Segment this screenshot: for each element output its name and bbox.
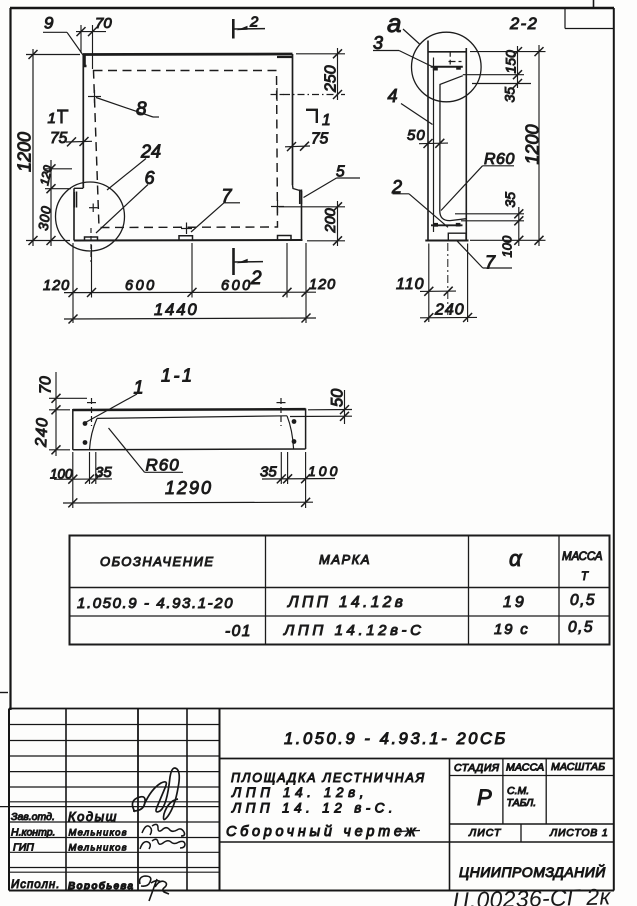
svg-text:1290: 1290: [165, 478, 213, 498]
svg-text:ТАБЛ.: ТАБЛ.: [507, 797, 537, 809]
frame right border: [613, 8, 615, 891]
section mark 2 top: [232, 19, 235, 39]
stud axis right: [277, 398, 286, 426]
extension line stud level: [463, 74, 524, 76]
plan outline left step: [74, 187, 83, 189]
svg-text:МАССА: МАССА: [506, 762, 544, 774]
beam outer left edge: [72, 409, 74, 450]
section profile top edge: [428, 51, 467, 53]
svg-text:1440: 1440: [154, 301, 199, 319]
dim 1200 left: line: [26, 49, 80, 246]
table header row line: [70, 587, 610, 589]
svg-text:1.050.9 - 4.93.1- 20СБ: 1.050.9 - 4.93.1- 20СБ: [284, 730, 508, 748]
dim row 1440: [64, 318, 316, 319]
svg-text:ЛПП 14. 12в,: ЛПП 14. 12в,: [231, 785, 368, 800]
bottom embed plate line: [431, 224, 463, 226]
svg-text:240: 240: [33, 417, 52, 449]
right rib inner face R60: [287, 416, 294, 449]
beam soffit line: [97, 416, 287, 419]
grid vertical x187: [186, 709, 188, 891]
svg-text:200: 200: [323, 208, 339, 233]
svg-text:24: 24: [140, 142, 161, 162]
svg-text:Мельников: Мельников: [69, 843, 128, 854]
dim 110: [420, 290, 456, 292]
svg-text:1200: 1200: [523, 124, 543, 164]
svg-text:120: 120: [309, 277, 336, 293]
stud axis left: [87, 398, 96, 426]
stud cross in detail circle: [89, 204, 98, 213]
extension line fillet level: [472, 83, 531, 85]
svg-text:С.М.: С.М.: [507, 785, 529, 797]
svg-text:50: 50: [407, 127, 426, 144]
svg-text:Р: Р: [477, 785, 492, 810]
svg-text:Сборочный чертеж: Сборочный чертеж: [226, 824, 419, 840]
dim 100/35 left: [54, 478, 112, 480]
svg-text:1.050.9 - 4.93.1-20: 1.050.9 - 4.93.1-20: [77, 595, 234, 612]
svg-text:α: α: [509, 546, 523, 571]
top edge stub: [593, 0, 595, 8]
svg-text:ЦНИИПРОМЗДАНИЙ: ЦНИИПРОМЗДАНИЙ: [459, 863, 606, 880]
dim 1290: [63, 501, 313, 504]
beam bottom edge: [73, 448, 306, 451]
svg-text:МАРКА: МАРКА: [319, 552, 371, 567]
embed plate bottom-right: [278, 236, 292, 241]
svg-text:120: 120: [43, 278, 70, 294]
svg-text:70: 70: [95, 15, 112, 32]
stud cross top-left: [88, 90, 101, 103]
section mark 1 left: [57, 111, 69, 124]
svg-text:Т: Т: [581, 571, 589, 583]
table column line 3: [558, 536, 560, 645]
corner notch detail callout9: [85, 55, 87, 66]
rebar dots left rib: [83, 421, 88, 445]
stadia col sep 1: [502, 759, 504, 825]
list row bottom / name cell bottom: [220, 841, 615, 843]
svg-text:100: 100: [308, 463, 340, 479]
dim 250 right of plan: [283, 48, 345, 100]
svg-text:1-1: 1-1: [161, 366, 195, 386]
svg-text:8: 8: [136, 99, 147, 120]
stud cross right-lower: [271, 200, 284, 213]
bottom extension lines: [429, 244, 468, 323]
section mark 2 bottom: [232, 248, 235, 275]
stadia row bottom: [450, 823, 615, 825]
svg-text:7: 7: [485, 253, 496, 273]
section profile inner left line: [433, 58, 435, 233]
dim 35/100 right: [262, 478, 335, 481]
detail circle: [56, 182, 125, 251]
svg-text:Зав.отд.: Зав.отд.: [11, 811, 55, 823]
dim 120/300 left: line: [45, 160, 72, 246]
svg-text:19 с: 19 с: [494, 621, 530, 638]
svg-text:2: 2: [250, 268, 262, 289]
svg-text:Исполн.: Исполн.: [11, 879, 60, 891]
frame top border: [10, 7, 614, 9]
svg-text:Мельников: Мельников: [69, 828, 128, 839]
svg-text:240: 240: [434, 302, 465, 319]
svg-text:0,5: 0,5: [568, 619, 594, 636]
svg-text:100: 100: [50, 467, 73, 482]
svg-text:600: 600: [125, 278, 157, 294]
svg-text:ЛИСТОВ 1: ЛИСТОВ 1: [549, 827, 608, 839]
svg-text:70: 70: [38, 376, 55, 394]
inner dashed contour: [94, 71, 278, 228]
svg-text:19: 19: [503, 594, 527, 611]
plan outline left edge upper: [82, 54, 84, 188]
svg-text:Кодыш: Кодыш: [68, 809, 118, 824]
right extension line top: [470, 51, 546, 53]
signature Кодыш flourish: [132, 768, 179, 820]
svg-text:R60: R60: [146, 456, 180, 475]
plan outline left edge lower: [73, 188, 75, 240]
section profile bottom edge: [425, 240, 468, 242]
grid rows left part: [0, 725, 220, 873]
top edge inner thickening near right corner: [277, 56, 292, 58]
embed plate bottom-left: [85, 237, 98, 241]
svg-text:75: 75: [50, 130, 68, 147]
svg-text:Воробьева: Воробьева: [68, 880, 134, 892]
plan outline right edge lower: [301, 191, 303, 240]
table row line: [70, 615, 610, 617]
left dims 70/240: [49, 372, 87, 456]
detail circle a: [412, 32, 482, 102]
side embed plate right (callout 5): [300, 190, 302, 205]
side embed plate left (in circle): [74, 192, 76, 208]
top-right corner box line: [565, 28, 614, 30]
svg-text:a: a: [387, 8, 401, 38]
svg-text:МАССА: МАССА: [562, 551, 603, 563]
top embed anchor dots: [433, 66, 461, 70]
svg-text:4: 4: [388, 86, 398, 106]
signature Мельников 2: [140, 839, 185, 849]
doc number cell line: [220, 758, 615, 760]
svg-text:Н.контр.: Н.контр.: [11, 827, 55, 839]
stadia block left edge: [449, 759, 451, 891]
plan outline right edge upper: [292, 54, 294, 185]
title block bottom line: [9, 890, 614, 892]
bottom edge embed plate: [448, 233, 466, 240]
right dim 50: [290, 390, 352, 424]
rebar dots right rib: [292, 419, 297, 444]
svg-text:ОБОЗНАЧЕНИЕ: ОБОЗНАЧЕНИЕ: [100, 554, 215, 569]
grid vertical x219.5 (big box left): [219, 709, 221, 891]
callout a leader: [403, 29, 420, 44]
svg-text:35: 35: [502, 192, 518, 208]
bottom extension lines: [73, 452, 306, 508]
svg-text:ЛПП 14.12в-С: ЛПП 14.12в-С: [283, 622, 425, 639]
svg-text:100: 100: [500, 235, 515, 257]
svg-text:110: 110: [396, 276, 425, 293]
vertical axis dash-dot below section: [447, 243, 449, 318]
dim row 120-600-600-120: [64, 291, 316, 293]
signature Воробьева: [140, 876, 169, 901]
svg-text:1: 1: [48, 110, 56, 127]
left rib inner face R60: [90, 418, 98, 449]
section profile outer right edge: [465, 48, 467, 241]
section inner cavity edge with R60 fillet: [440, 76, 467, 221]
stadia header underline: [450, 775, 615, 777]
svg-text:9: 9: [44, 14, 54, 33]
svg-text:75: 75: [311, 131, 329, 148]
svg-text:2: 2: [249, 14, 259, 31]
dim line 35/100 lower: [518, 207, 520, 246]
plan outline right step: [293, 185, 302, 191]
svg-text:ГИП: ГИП: [13, 842, 34, 854]
dim 1200 right line: [538, 45, 540, 246]
bottom dim extension lines: [73, 228, 306, 323]
svg-text:35: 35: [95, 464, 112, 481]
bottom embed anchor dots: [433, 223, 460, 227]
table column line 2: [468, 536, 470, 645]
plan slab outline top edge (thick): [83, 53, 293, 56]
plan outline bottom edge: [74, 239, 303, 242]
svg-text:35: 35: [502, 87, 518, 103]
svg-text:ПЛОЩАДКА ЛЕСТНИЧНАЯ: ПЛОЩАДКА ЛЕСТНИЧНАЯ: [231, 771, 426, 785]
svg-text:35: 35: [260, 464, 277, 481]
title block top line: [9, 708, 614, 710]
dim 75 right ticks: [285, 145, 310, 148]
dim 70 top: [76, 25, 106, 69]
title block left edge: [8, 709, 10, 891]
svg-text:1200: 1200: [15, 132, 35, 172]
svg-text:150: 150: [503, 50, 519, 74]
svg-text:2-2: 2-2: [509, 15, 538, 33]
section profile outer left edge: [427, 41, 429, 241]
svg-text:6: 6: [145, 168, 156, 188]
beam outer right edge: [305, 409, 307, 450]
svg-text:СТАДИЯ: СТАДИЯ: [454, 762, 500, 774]
bottom stamp text: [452, 883, 611, 906]
svg-text:ЛПП 14.12в: ЛПП 14.12в: [287, 594, 406, 611]
table column line 1: [265, 536, 267, 645]
top embed axis dashes: [449, 52, 462, 65]
grid vertical x66: [65, 709, 67, 891]
top embed plate: [431, 66, 463, 68]
left margin stub line: [0, 692, 8, 694]
svg-text:1: 1: [322, 112, 331, 129]
table outer border: [70, 536, 610, 645]
list col sep: [520, 824, 522, 842]
svg-text:ЛПП 14. 12 в-С.: ЛПП 14. 12 в-С.: [231, 801, 397, 816]
svg-text:-01: -01: [225, 623, 252, 640]
dim line 150/35: [517, 46, 519, 88]
svg-text:Ц.00236-СГ 2к: Ц.00236-СГ 2к: [452, 883, 611, 906]
grid vertical x138: [137, 709, 139, 891]
svg-text:250: 250: [323, 65, 340, 93]
svg-text:50: 50: [329, 388, 347, 407]
stud cross bottom-centre: [181, 223, 192, 235]
dim 200 right of plan: [279, 201, 345, 246]
strike on чертеж: [398, 831, 420, 832]
svg-text:ЛИСТ: ЛИСТ: [468, 827, 502, 839]
beam top edge (thick): [73, 408, 306, 411]
signature Мельников 1: [142, 824, 185, 836]
dim 240: [420, 316, 477, 318]
section mark 1 right: [306, 109, 318, 123]
dim 75 left ticks: [66, 140, 92, 143]
extension lines 35/100 lower: [455, 214, 546, 241]
svg-text:0,5: 0,5: [570, 592, 596, 609]
embed plate bottom-middle: [179, 236, 193, 241]
stud cross top-right: [271, 88, 284, 101]
frame left border: [9, 8, 11, 710]
stadia col sep 2: [545, 759, 547, 825]
svg-text:600: 600: [221, 278, 253, 294]
svg-text:МАСШТАБ: МАСШТАБ: [551, 761, 605, 773]
